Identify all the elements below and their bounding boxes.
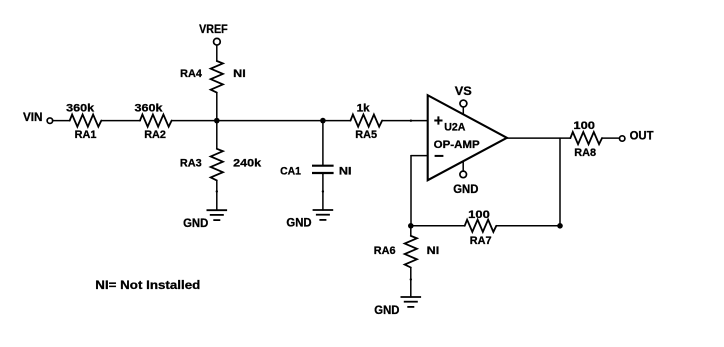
node VIN terminal <box>47 118 53 124</box>
node VS terminal <box>460 100 467 107</box>
svg-text:100: 100 <box>573 120 595 132</box>
svg-text:NI: NI <box>233 68 246 80</box>
svg-text:100: 100 <box>468 209 490 221</box>
wire feedback right up to output <box>559 138 561 226</box>
ground (RA6) <box>401 296 422 298</box>
op-amp - input sign <box>435 155 444 157</box>
capacitor CA1 top plate <box>312 165 334 167</box>
wire RA2 to RA5 through junctions <box>172 120 351 122</box>
junction node at CA1 <box>320 118 326 124</box>
svg-text:NI: NI <box>339 166 352 178</box>
junction node at RA2/RA3/RA4 <box>214 118 220 124</box>
svg-text:NI= Not Installed: NI= Not Installed <box>95 278 200 292</box>
resistor RA7 <box>465 220 497 232</box>
node op-amp GND terminal <box>460 171 467 178</box>
svg-text:VREF: VREF <box>199 24 228 36</box>
wire joint nub on CA1 ground wire <box>322 190 324 192</box>
svg-text:RA6: RA6 <box>374 245 396 257</box>
wire main to CA1 <box>322 121 324 165</box>
svg-text:RA8: RA8 <box>574 147 596 159</box>
wire op-amp GND stub <box>462 161 464 171</box>
wire RA4 to main wire <box>216 93 218 121</box>
wire op-amp VS stub <box>462 107 464 114</box>
svg-text:GND: GND <box>183 218 208 230</box>
wire RA8 to OUT <box>602 137 619 139</box>
op-amp U2A triangle <box>428 95 507 180</box>
svg-text:RA7: RA7 <box>470 235 492 247</box>
wire feedback node to RA6 <box>410 226 412 236</box>
svg-text:OUT: OUT <box>630 131 654 143</box>
svg-text:240k: 240k <box>233 157 262 169</box>
node VREF terminal <box>214 38 221 45</box>
wire RA5 to op-amp + input <box>382 120 428 122</box>
svg-text:VIN: VIN <box>23 112 43 124</box>
wire joint nub on RA3 ground wire <box>216 190 218 192</box>
resistor RA4 <box>211 61 223 93</box>
wire - input down to feedback node <box>410 156 412 226</box>
svg-text:RA3: RA3 <box>180 157 202 169</box>
svg-text:OP-AMP: OP-AMP <box>434 139 480 151</box>
svg-text:GND: GND <box>374 305 399 317</box>
wire op-amp - input stub <box>411 155 428 157</box>
wire VIN to RA1 <box>53 120 70 122</box>
svg-text:RA4: RA4 <box>180 68 203 80</box>
wire CA1 to ground <box>322 174 324 210</box>
op-amp + input sign <box>434 116 442 124</box>
resistor RA2 <box>140 115 172 127</box>
wire VREF to RA4 <box>216 45 218 61</box>
resistor RA5 <box>351 115 383 127</box>
svg-text:GND: GND <box>453 184 478 196</box>
wire RA1 to RA2 <box>101 120 140 122</box>
ground (RA3) <box>207 209 228 211</box>
resistor RA6 <box>405 236 417 268</box>
node OUT terminal <box>620 136 625 141</box>
wire feedback node to RA7 <box>411 225 465 227</box>
svg-text:360k: 360k <box>135 103 164 115</box>
junction node feedback right <box>557 223 563 229</box>
svg-text:CA1: CA1 <box>280 166 301 178</box>
svg-text:RA1: RA1 <box>75 129 97 141</box>
svg-text:RA5: RA5 <box>355 129 377 141</box>
wire RA7 to right junction <box>496 225 560 227</box>
capacitor CA1 bottom plate <box>312 172 334 174</box>
wire RA3 to ground <box>216 180 218 210</box>
wire joint nub on main wire <box>410 120 412 122</box>
svg-text:VS: VS <box>455 86 472 98</box>
svg-text:U2A: U2A <box>444 121 465 133</box>
resistor RA3 <box>211 149 223 181</box>
svg-text:RA2: RA2 <box>144 129 166 141</box>
svg-text:360k: 360k <box>66 103 95 115</box>
svg-text:1k: 1k <box>357 103 371 115</box>
resistor RA8 <box>570 132 602 144</box>
svg-text:GND: GND <box>286 217 311 229</box>
wire RA6 to ground <box>410 268 412 298</box>
junction node feedback left <box>408 223 414 229</box>
wire op-amp output to RA8 <box>507 137 571 139</box>
wire joint nub on RA6 ground wire <box>410 278 412 280</box>
svg-text:NI: NI <box>427 245 440 257</box>
ground (CA1) <box>313 209 334 211</box>
wire main to RA3 <box>216 121 218 149</box>
resistor RA1 <box>70 115 102 127</box>
